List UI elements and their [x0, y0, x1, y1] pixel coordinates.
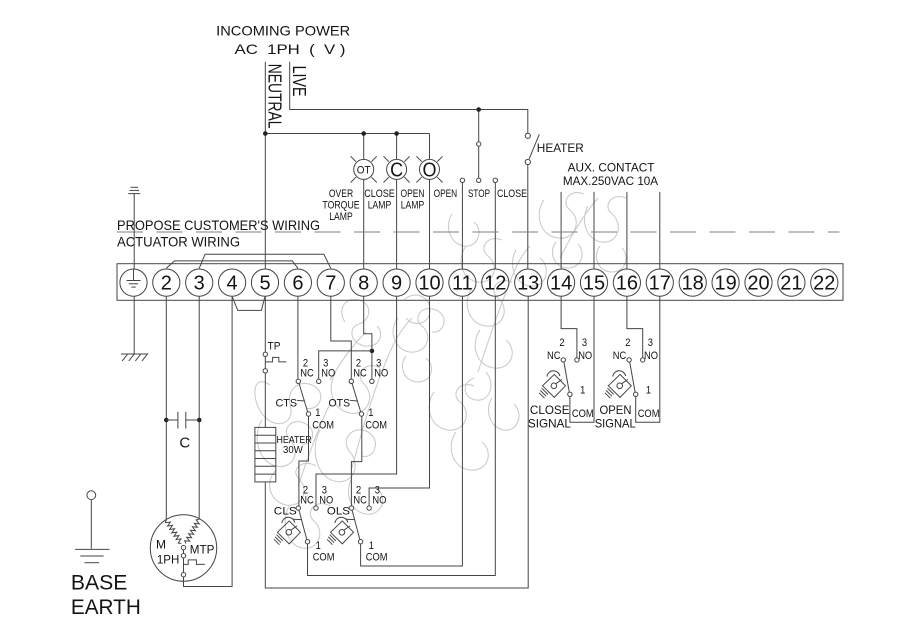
- wire motor common to terminal 4 (bottom rail): [184, 296, 233, 586]
- terminal 15: [580, 269, 607, 296]
- decorative watermark: [255, 193, 626, 549]
- svg-text:INCOMING POWER: INCOMING POWER: [216, 23, 350, 39]
- wire jumper link terminal 4 to terminal 5 (below strip): [232, 296, 265, 310]
- svg-text:3: 3: [648, 337, 653, 349]
- svg-text:9: 9: [391, 273, 402, 295]
- svg-text:3: 3: [194, 273, 205, 295]
- svg-text:COM: COM: [366, 551, 388, 563]
- terminal 6: [284, 269, 311, 296]
- svg-text:1PH: 1PH: [157, 552, 179, 566]
- label CLOSE LAMP: [364, 188, 395, 212]
- svg-text:OTS: OTS: [329, 398, 351, 410]
- svg-text:NC: NC: [300, 495, 314, 507]
- terminal 8: [350, 269, 377, 296]
- svg-text:2: 2: [559, 337, 564, 349]
- svg-text:CTS: CTS: [276, 398, 298, 410]
- svg-text:OT: OT: [357, 164, 371, 176]
- svg-text:COM: COM: [572, 408, 594, 420]
- terminal 7: [317, 269, 344, 296]
- svg-text:AC 1PH ( V ): AC 1PH ( V ): [235, 41, 346, 57]
- svg-text:NC: NC: [300, 368, 314, 380]
- wire CTS COM to CLS NC: [299, 416, 309, 506]
- wire aux lead terminal 14: [560, 192, 562, 269]
- label: INCOMING POWER title: [216, 23, 350, 57]
- ground BASE EARTH electrode symbol: [75, 491, 109, 563]
- wire terminal 8 to torque-switch NO contacts: [364, 296, 372, 348]
- svg-text:OPEN: OPEN: [434, 188, 458, 200]
- label STOP: [468, 188, 490, 200]
- svg-text:4: 4: [227, 273, 238, 295]
- wire terminal 5 to thermal protector TP: [264, 296, 266, 352]
- switch OPEN SIGNAL (aux contact): [595, 337, 660, 431]
- label HEATER (switch): [537, 141, 584, 155]
- wire terminal 2 to motor winding (left): [165, 296, 167, 520]
- svg-text:11: 11: [452, 273, 473, 295]
- wire TP to heater resistor: [264, 373, 266, 427]
- wire aux lead terminal 16: [626, 192, 628, 269]
- wire terminal 16 to OPEN SIGNAL NO: [627, 296, 643, 358]
- svg-text:1: 1: [580, 385, 585, 397]
- svg-text:NC: NC: [353, 368, 367, 380]
- svg-text:7: 7: [325, 273, 336, 295]
- motor M 1PH (single phase motor): [150, 515, 216, 581]
- svg-text:19: 19: [714, 273, 736, 295]
- svg-text:NC: NC: [353, 495, 367, 507]
- label AUX. CONTACT: [568, 161, 655, 175]
- svg-text:COM: COM: [365, 419, 387, 431]
- svg-text:6: 6: [292, 273, 303, 295]
- wire CLOSE SIGNAL COM to terminal 15: [570, 296, 594, 422]
- switch CLS (close limit switch) with roller actuator: [274, 485, 335, 564]
- node neutral-OT junction: [361, 131, 366, 136]
- svg-text:C: C: [390, 159, 403, 181]
- wire junction to OTS NO: [371, 353, 373, 379]
- switch CTS (close torque switch, NC-COM shown): [276, 358, 336, 432]
- node live-stop junction: [476, 107, 481, 112]
- svg-text:LAMP: LAMP: [329, 211, 353, 223]
- resistor HEATER 30W (anti-condensation heater): [255, 427, 276, 482]
- ground (signal earth above strip) with lead to earth terminal: [128, 187, 140, 269]
- svg-text:COM: COM: [313, 551, 335, 563]
- svg-text:NO: NO: [644, 350, 658, 362]
- wire heater resistor to terminal 13 (bottom rail): [265, 296, 528, 588]
- wire jumper link terminal 3 to terminal 7 (bracket above strip): [199, 254, 331, 268]
- label ACTUATOR WIRING: [117, 233, 240, 249]
- svg-text:C: C: [179, 435, 190, 452]
- terminal 12: [482, 269, 509, 296]
- wire neutral conductor (vertical from supply to terminal 5): [264, 62, 266, 269]
- wire OLS COM to terminal 11 (bottom rail): [361, 296, 463, 566]
- wire OPEN SIGNAL COM to terminal 17: [636, 296, 660, 422]
- svg-text:1: 1: [369, 540, 374, 552]
- terminal 21: [778, 269, 805, 296]
- svg-text:1: 1: [316, 540, 321, 552]
- label OVER TORQUE LAMP: [322, 188, 359, 223]
- svg-text:21: 21: [780, 273, 802, 295]
- node neutral-C junction: [394, 131, 399, 136]
- switch OTS (open torque switch): [329, 358, 389, 432]
- svg-text:OVER: OVER: [329, 188, 353, 200]
- svg-text:5: 5: [259, 273, 270, 295]
- svg-text:30W: 30W: [283, 445, 303, 456]
- terminal earth (ground terminal circle): [120, 269, 147, 296]
- wire aux lead terminal 17: [659, 192, 661, 269]
- wire terminal 6 to CTS NC: [297, 296, 299, 379]
- svg-text:18: 18: [682, 273, 704, 295]
- svg-text:TORQUE: TORQUE: [322, 200, 359, 212]
- label HEATER 30W: [277, 435, 312, 456]
- svg-text:LAMP: LAMP: [368, 200, 392, 212]
- label PROPOSE CUSTOMER'S WIRING: [117, 217, 320, 233]
- lamp O (open lamp) with wires: [416, 134, 442, 270]
- terminal 4: [219, 269, 246, 296]
- svg-text:MAX.250VAC 10A: MAX.250VAC 10A: [563, 174, 658, 188]
- svg-text:16: 16: [616, 273, 638, 295]
- capacitor C (motor run capacitor): [164, 412, 202, 429]
- svg-text:13: 13: [517, 273, 539, 295]
- svg-text:15: 15: [583, 273, 605, 295]
- pushbutton CLOSE (customer) terminal and wire to terminal 12: [493, 178, 497, 269]
- wire terminal 14 to CLOSE SIGNAL NO: [561, 296, 577, 358]
- wire CLS COM to terminal 12 (bottom rail): [308, 296, 496, 575]
- svg-text:PROPOSE CUSTOMER'S WIRING: PROPOSE CUSTOMER'S WIRING: [117, 217, 320, 233]
- svg-text:3: 3: [582, 337, 587, 349]
- terminal 5: [251, 269, 278, 296]
- label MAX.250VAC 10A: [563, 174, 658, 188]
- svg-text:CLOSE: CLOSE: [497, 188, 527, 200]
- terminal 9: [383, 269, 410, 296]
- terminal 13: [515, 269, 542, 296]
- terminal 19: [712, 269, 739, 296]
- svg-text:10: 10: [418, 273, 440, 295]
- svg-text:NC: NC: [613, 350, 627, 362]
- svg-text:LAMP: LAMP: [401, 200, 425, 212]
- svg-text:AUX. CONTACT: AUX. CONTACT: [568, 161, 655, 175]
- svg-text:OLS: OLS: [327, 506, 350, 518]
- thermostat TP contact: [263, 352, 286, 373]
- svg-text:OPEN: OPEN: [401, 188, 425, 200]
- pushbutton OPEN (customer) terminal and wire to terminal 11: [460, 178, 464, 269]
- svg-text:M: M: [156, 537, 166, 551]
- svg-text:NEUTRAL: NEUTRAL: [265, 64, 286, 129]
- svg-text:NO: NO: [578, 350, 592, 362]
- wire earth terminal to chassis ground: [133, 296, 135, 354]
- svg-text:NC: NC: [547, 350, 561, 362]
- svg-text:NO: NO: [374, 368, 388, 380]
- terminal 20: [745, 269, 772, 296]
- terminal 10: [416, 269, 443, 296]
- label OPEN (button): [434, 188, 458, 200]
- terminal 22: [811, 269, 838, 296]
- svg-text:2: 2: [625, 337, 630, 349]
- svg-text:SIGNAL: SIGNAL: [528, 417, 571, 431]
- terminal 14: [548, 269, 575, 296]
- switch OLS (open limit switch) with roller actuator: [327, 485, 388, 564]
- switch CLOSE SIGNAL (aux contact): [528, 337, 594, 431]
- terminal 3: [186, 269, 213, 296]
- svg-text:8: 8: [358, 273, 369, 295]
- label CLOSE (button): [497, 188, 527, 200]
- svg-text:ACTUATOR WIRING: ACTUATOR WIRING: [117, 233, 240, 249]
- label BASE EARTH: [71, 571, 141, 619]
- svg-text:COM: COM: [312, 419, 334, 431]
- svg-text:CLOSE: CLOSE: [530, 403, 570, 417]
- label NEUTRAL (rotated): [265, 64, 286, 129]
- wire junction to CTS NO: [319, 351, 372, 379]
- svg-text:COM: COM: [638, 408, 660, 420]
- wire terminal 3 to motor winding (right): [198, 296, 200, 519]
- wire aux lead terminal 15: [593, 192, 595, 269]
- wire terminal 7 to OTS NC: [331, 296, 352, 379]
- terminal strip body: [117, 264, 843, 301]
- node neutral junction at terminal-5 feeder: [263, 131, 268, 136]
- wire jumper link terminal 2 to terminal 6 (bracket above strip): [166, 261, 298, 268]
- lamp C (close lamp) with wires: [384, 134, 410, 270]
- label OPEN LAMP: [401, 188, 425, 212]
- svg-text:TP: TP: [268, 340, 281, 352]
- switch HEATER (SPST in live line) with wire to terminal 13: [525, 133, 539, 269]
- terminal 11: [449, 269, 476, 296]
- label LIVE (rotated): [289, 66, 310, 97]
- svg-text:14: 14: [550, 273, 572, 295]
- node torque NO junction: [370, 349, 375, 354]
- wire neutral lamp rail: [265, 133, 429, 135]
- wire OTS COM to OLS NC: [351, 416, 361, 506]
- svg-text:CLS: CLS: [274, 506, 297, 518]
- svg-text:1: 1: [368, 407, 373, 419]
- label TP: [268, 340, 281, 352]
- terminal 16: [613, 269, 640, 296]
- svg-text:BASE: BASE: [71, 571, 128, 594]
- svg-text:CLOSE: CLOSE: [364, 188, 395, 200]
- svg-text:EARTH: EARTH: [71, 596, 141, 619]
- terminal 2: [153, 269, 180, 296]
- wire live conductor (vertical then horizontal rail to heater switch): [290, 62, 528, 134]
- svg-text:1: 1: [646, 385, 651, 397]
- svg-text:17: 17: [649, 273, 671, 295]
- svg-text:LIVE: LIVE: [289, 66, 310, 97]
- wire OLS NO to terminal 10: [369, 296, 429, 506]
- ground (chassis/hatched earth below strip): [121, 354, 148, 361]
- wire CLS NO to terminal 9: [316, 296, 397, 506]
- svg-text:NO: NO: [321, 368, 335, 380]
- svg-text:2: 2: [161, 273, 172, 295]
- svg-text:22: 22: [813, 273, 835, 295]
- terminal 17: [646, 269, 673, 296]
- svg-text:STOP: STOP: [468, 188, 490, 200]
- svg-text:NO: NO: [372, 495, 386, 507]
- lamp OT (over torque lamp) with wires to neutral rail and terminal 8: [351, 134, 377, 270]
- svg-text:OPEN: OPEN: [600, 403, 632, 417]
- svg-text:SIGNAL: SIGNAL: [595, 417, 636, 431]
- svg-text:12: 12: [484, 273, 506, 295]
- label C (capacitor value label): [179, 435, 190, 452]
- svg-text:MTP: MTP: [190, 543, 215, 557]
- svg-text:O: O: [423, 159, 437, 181]
- pushbutton STOP (NC, in live feed): [477, 110, 481, 183]
- thermal protector MTP contact symbol: [184, 560, 205, 565]
- svg-text:1: 1: [315, 407, 320, 419]
- terminal 18: [679, 269, 706, 296]
- svg-text:HEATER: HEATER: [537, 141, 584, 155]
- boundary dashed separation line (customer / actuator): [117, 231, 840, 233]
- svg-text:20: 20: [747, 273, 769, 295]
